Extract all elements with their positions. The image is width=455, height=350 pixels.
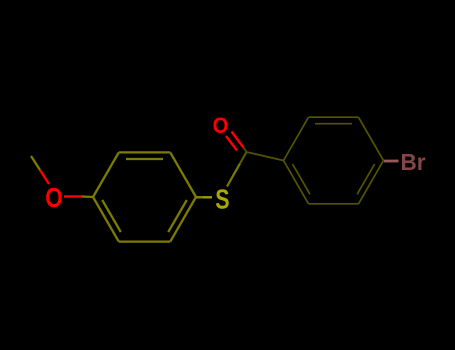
wire edge TR-R	[170, 152, 196, 197]
wire edge BR-BL	[309, 203, 359, 205]
methyl C-O bond carbon half	[31, 156, 40, 170]
S-C(=O) bond sulfur side	[227, 164, 240, 187]
O atom label (methoxy)	[45, 183, 62, 214]
S atom label	[215, 185, 229, 215]
O atom label (carbonyl)	[213, 114, 229, 138]
svg-text:Br: Br	[401, 149, 426, 175]
Br atom label	[401, 149, 426, 175]
O-ring bond oxygen half	[64, 195, 82, 198]
double bond inner line left-bottom	[293, 164, 311, 194]
wire edge BR-BL	[119, 240, 171, 242]
svg-text:S: S	[215, 185, 229, 215]
C(=O)-ring bond	[247, 152, 284, 161]
C=O double bond lower line	[226, 136, 237, 151]
double bond inner line top	[126, 158, 163, 160]
wire edge R-BR (double bond outer)	[359, 161, 384, 204]
O-ring bond carbon half	[82, 195, 93, 198]
double bond inner line right-bottom	[168, 200, 187, 232]
wire edge L-TL	[93, 152, 119, 197]
svg-text:O: O	[213, 114, 229, 138]
double bond inner line top	[315, 123, 352, 125]
wire edge R-BR (double bond outer)	[170, 197, 196, 242]
C=O double bond upper line red part	[232, 132, 244, 148]
wire edge TL-TR (double bond outer)	[309, 116, 359, 118]
svg-text:O: O	[45, 183, 62, 214]
wire edge TL-TR (double bond outer)	[119, 151, 171, 153]
ring-S bond sulfur half	[203, 196, 212, 198]
wire edge BL-L (double bond outer)	[93, 197, 119, 242]
wire edge TR-R	[359, 117, 384, 160]
methyl C-O bond oxygen half	[40, 170, 49, 184]
ring-Br bond	[384, 160, 399, 163]
wire edge L-TL	[284, 117, 309, 160]
ring-S bond carbon half	[196, 196, 203, 198]
C=O double bond upper line carbon tail	[244, 148, 247, 153]
benzene ring right	[284, 117, 384, 204]
S-C(=O) bond carbon side	[240, 152, 247, 164]
double bond inner line right-bottom	[357, 164, 375, 194]
benzene ring left	[93, 152, 196, 241]
wire edge BL-L (double bond outer)	[284, 161, 309, 204]
double bond inner line left-bottom	[102, 200, 121, 232]
